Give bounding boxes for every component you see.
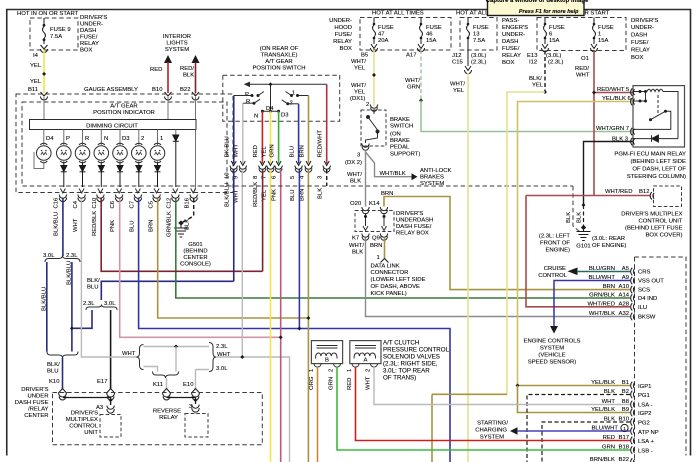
svg-text:YEL: YEL — [30, 79, 42, 85]
gauge assembly box (outer dashed) — [16, 94, 233, 193]
svg-text:SOLENOID VALVES: SOLENOID VALVES — [383, 354, 440, 361]
a/t gear position indicator box (inner dashed) — [22, 102, 227, 186]
svg-text:RELAY BOX: RELAY BOX — [396, 231, 429, 237]
underdash fuse relay box (O20/K14) — [355, 211, 394, 232]
svg-text:BLK/BLU: BLK/BLU — [41, 287, 47, 311]
svg-text:O1: O1 — [581, 56, 589, 62]
svg-text:GRN: GRN — [269, 144, 275, 157]
svg-text:DRIVER'S: DRIVER'S — [21, 387, 48, 393]
svg-text:YEL: YEL — [532, 83, 544, 89]
pin labels C16 C4 C10 C6 C7 C5 C12 B16 (rotated) — [54, 197, 191, 209]
wire RED 1 solenoid A to B17 — [356, 367, 631, 441]
svg-text:A/T GEAR: A/T GEAR — [110, 104, 137, 110]
svg-text:UNDER: UNDER — [28, 394, 49, 400]
svg-text:ENGER'S: ENGER'S — [502, 25, 528, 31]
connector E10 — [192, 389, 200, 400]
svg-text:CONTROL: CONTROL — [69, 424, 99, 430]
diode column 8 — [173, 135, 179, 187]
wire RED/BLK B22 — [195, 62, 197, 93]
wire BLK/BLU 3.0L branch — [46, 262, 48, 352]
svg-text:13: 13 — [473, 32, 480, 38]
svg-text:DASH FUSE/: DASH FUSE/ — [396, 224, 432, 230]
engine controls system dashed box — [635, 257, 687, 462]
ground G501 — [174, 221, 188, 237]
svg-text:VSS OUT: VSS OUT — [638, 279, 664, 285]
svg-text:(2.3L): (2.3L) — [548, 60, 563, 66]
svg-text:SYSTEM: SYSTEM — [420, 181, 444, 187]
svg-text:WHT/RED: WHT/RED — [605, 189, 633, 195]
wire WHT 2.3L upper — [144, 346, 210, 348]
svg-text:DRIVER'S: DRIVER'S — [631, 18, 658, 24]
wire WHT/BLK branch to anti-lock — [366, 152, 412, 177]
svg-text:WHT/: WHT/ — [347, 172, 362, 178]
wire BLK/BLU from C16 — [62, 199, 64, 257]
svg-text:WHT/BLK: WHT/BLK — [589, 311, 615, 317]
connector Q9 — [380, 234, 387, 241]
svg-text:R: R — [246, 99, 250, 105]
fuse 13 7.5A — [467, 18, 470, 67]
svg-text:SYSTEM: SYSTEM — [165, 47, 189, 53]
wire YEL/BLK to relay pin 6 — [518, 102, 634, 386]
lamp N — [94, 143, 109, 163]
svg-text:K11: K11 — [153, 382, 163, 388]
svg-text:PEDAL: PEDAL — [390, 145, 410, 151]
bus K11-E10 — [167, 397, 196, 399]
driver's multiplex control unit box (dashed) — [654, 186, 682, 207]
svg-text:WHT/: WHT/ — [405, 78, 420, 84]
svg-text:A/T CLUTCH: A/T CLUTCH — [383, 340, 419, 347]
svg-text:LIGHTS: LIGHTS — [166, 41, 187, 47]
svg-text:D3: D3 — [122, 136, 130, 142]
svg-text:A32: A32 — [619, 311, 629, 317]
svg-text:E17: E17 — [97, 379, 107, 385]
svg-text:B12: B12 — [639, 189, 649, 195]
svg-text:SYSTEM: SYSTEM — [480, 435, 504, 441]
svg-text:DASH: DASH — [631, 33, 647, 39]
ecm connector brackets — [631, 268, 635, 462]
svg-text:ENGINE): ENGINE) — [545, 248, 570, 254]
svg-text:CONTROL UNIT: CONTROL UNIT — [639, 219, 683, 225]
svg-text:WHT: WHT — [366, 376, 372, 390]
svg-text:(LOWER LEFT SIDE: (LOWER LEFT SIDE — [371, 277, 426, 283]
wire B22 feed inside gauge box — [195, 97, 197, 120]
wire DK BLU pin10 — [233, 96, 235, 164]
svg-text:YEL/BLK: YEL/BLK — [591, 407, 615, 413]
svg-text:A/T GEAR: A/T GEAR — [265, 59, 292, 65]
ground G101 — [577, 226, 591, 241]
svg-text:WHT: WHT — [73, 218, 79, 232]
relay pin 6 internal — [633, 92, 646, 102]
svg-text:(BEHIND: (BEHIND — [183, 249, 207, 255]
svg-text:DASH: DASH — [80, 28, 96, 34]
svg-text:WHT/: WHT/ — [351, 59, 366, 65]
junction dot on 2.3L branch — [70, 326, 74, 330]
svg-text:G101: G101 — [576, 244, 590, 250]
svg-text:SWITCH: SWITCH — [390, 124, 413, 130]
svg-text:GRN: GRN — [329, 377, 335, 390]
svg-text:BRN: BRN — [370, 243, 382, 249]
svg-text:B5: B5 — [361, 53, 369, 59]
svg-text:Press F1 for more help: Press F1 for more help — [519, 9, 579, 15]
svg-text:RELAY: RELAY — [333, 39, 352, 45]
driver's under dash fuse relay center box — [53, 393, 263, 445]
svg-text:DIMMING CIRCUIT: DIMMING CIRCUIT — [86, 124, 138, 130]
svg-text:HOT IN ON OR START: HOT IN ON OR START — [17, 11, 79, 17]
svg-text:BLK/: BLK/ — [87, 278, 100, 284]
wire YEL pin7 below connector — [270, 170, 272, 462]
diode under R — [80, 162, 86, 188]
svg-text:(DX 2): (DX 2) — [345, 160, 362, 166]
svg-text:CRUISE: CRUISE — [544, 266, 566, 272]
svg-text:3.0L: TOP REAR: 3.0L: TOP REAR — [383, 368, 430, 375]
svg-text:(VEHICLE: (VEHICLE — [538, 353, 565, 359]
svg-text:C4: C4 — [73, 200, 79, 208]
svg-text:SCS: SCS — [638, 288, 650, 294]
junction dot WHT upper — [174, 345, 178, 349]
svg-text:WHT/BLK: WHT/BLK — [380, 171, 406, 177]
svg-text:(ON REAR OF: (ON REAR OF — [260, 46, 299, 52]
connector B12 — [650, 192, 654, 199]
fuse 6 15A — [542, 18, 549, 52]
svg-text:C6: C6 — [110, 200, 116, 208]
fuse 46 15A — [418, 18, 425, 52]
svg-text:PRESSURE CONTROL: PRESSURE CONTROL — [383, 347, 450, 354]
svg-text:/RELAY: /RELAY — [28, 407, 49, 413]
arrow up RED/BLK to interior lights — [192, 55, 200, 63]
svg-text:2: 2 — [141, 136, 144, 142]
svg-text:BLK: BLK — [604, 389, 615, 395]
svg-text:(2.3L): (2.3L) — [471, 60, 486, 66]
wire E17 to A3 — [110, 397, 112, 405]
svg-text:IGP2: IGP2 — [638, 411, 651, 417]
svg-text:BRN: BRN — [603, 284, 615, 290]
svg-text:STARTING/: STARTING/ — [477, 421, 508, 427]
svg-text:D4 IND: D4 IND — [638, 296, 657, 302]
svg-text:(3.0L): (3.0L) — [546, 53, 561, 59]
wire WHT pin9 — [242, 103, 244, 163]
svg-text:BLK: BLK — [350, 179, 361, 185]
svg-text:RELAY: RELAY — [631, 48, 650, 54]
svg-text:FRONT OF: FRONT OF — [540, 241, 570, 247]
svg-text:INTERIOR: INTERIOR — [163, 34, 191, 40]
wire BLK dashed to G101 — [583, 205, 585, 227]
svg-text:2: 2 — [329, 369, 335, 372]
wire BLU pin5 below connector — [298, 170, 300, 329]
wire BRN pin4 below connector — [307, 170, 309, 462]
wire BLK B2 dashed — [527, 395, 630, 462]
svg-text:(BEHIND LEFT FUSE: (BEHIND LEFT FUSE — [625, 226, 683, 232]
svg-text:OF ENGINE): OF ENGINE) — [592, 243, 626, 249]
svg-text:3.0L: 3.0L — [104, 301, 116, 307]
svg-text:PG1: PG1 — [638, 393, 650, 399]
svg-text:YEL: YEL — [261, 146, 267, 158]
svg-text:R: R — [85, 136, 89, 142]
svg-text:BRN: BRN — [299, 145, 305, 157]
svg-text:BRN: BRN — [381, 191, 393, 197]
svg-text:P: P — [66, 136, 70, 142]
wire WHT 2 solenoid A to B8 — [374, 367, 630, 405]
svg-text:7.5A: 7.5A — [50, 34, 62, 40]
svg-text:1: 1 — [309, 369, 315, 372]
svg-text:N: N — [104, 136, 108, 142]
solenoid valve B — [311, 341, 342, 368]
svg-text:2.3L: 2.3L — [216, 344, 228, 350]
svg-text:BOX: BOX — [502, 60, 515, 66]
svg-text:BOX: BOX — [340, 46, 353, 52]
wire YEL/BLK B1 — [518, 385, 631, 387]
svg-text:RELAY: RELAY — [80, 41, 99, 47]
wire GRN 2 solenoid B to B18 — [337, 367, 630, 450]
svg-text:BLK/: BLK/ — [529, 76, 542, 82]
svg-text:D3: D3 — [281, 113, 289, 119]
svg-text:LSA +: LSA + — [638, 439, 654, 445]
svg-text:BLU: BLU — [129, 221, 135, 232]
dimming circuit box — [30, 120, 197, 130]
lamp R — [75, 143, 90, 163]
svg-text:HOOD: HOOD — [334, 25, 352, 31]
wire BLK/BLU to K10 — [62, 358, 64, 389]
svg-text:BLU/GRN: BLU/GRN — [589, 266, 615, 272]
wires inside O20/K14 box — [363, 213, 387, 231]
svg-text:A: A — [364, 358, 368, 364]
svg-text:46: 46 — [426, 32, 433, 38]
connector half-circles row (gauge outputs) — [59, 195, 197, 202]
connector O20 — [362, 207, 369, 214]
svg-text:FUSE 9: FUSE 9 — [50, 27, 71, 33]
wire GRN pin6 — [278, 111, 280, 163]
wire BRN link C5 — [158, 199, 309, 319]
svg-text:C7: C7 — [129, 201, 135, 209]
svg-text:RELAY: RELAY — [159, 415, 178, 421]
svg-text:FUSE: FUSE — [473, 25, 489, 31]
wire RED/WHT branch to relay pin 5 — [594, 92, 633, 94]
svg-text:FUSE: FUSE — [598, 25, 614, 31]
connector B11 on gauge box — [41, 92, 48, 100]
svg-text:SPEED SENSOR): SPEED SENSOR) — [528, 360, 576, 366]
svg-text:B2: B2 — [622, 389, 629, 395]
svg-text:BLU/WHT: BLU/WHT — [588, 275, 615, 281]
svg-text:N: N — [254, 114, 258, 120]
wire RED/BLK pin8 below connector — [262, 170, 264, 272]
contact R — [243, 99, 260, 105]
svg-text:15A: 15A — [426, 38, 437, 44]
svg-text:I12: I12 — [529, 60, 537, 66]
svg-text:BLU: BLU — [87, 285, 98, 291]
svg-text:B10: B10 — [152, 87, 163, 93]
svg-text:RED/WHT 5: RED/WHT 5 — [597, 87, 630, 93]
svg-text:RELAY: RELAY — [502, 53, 521, 59]
connector E17 — [107, 389, 115, 400]
svg-text:B9: B9 — [622, 407, 629, 413]
svg-text:CRS: CRS — [638, 270, 651, 276]
relay armature link (dashed) — [657, 95, 659, 116]
contact 2 — [282, 100, 299, 107]
svg-text:FUSE/: FUSE/ — [631, 40, 649, 46]
svg-text:2: 2 — [366, 102, 369, 108]
reverse relay box — [185, 414, 208, 438]
arrow to starting/charging — [510, 427, 518, 434]
wire BLU/WHT A9 to vss arrow — [554, 281, 630, 327]
lamp column stubs from dimming circuit — [44, 130, 176, 146]
connector J12/C15 — [465, 66, 472, 74]
wire BLK dashed down to G101 — [573, 186, 580, 232]
svg-text:DK BLU: DK BLU — [225, 136, 231, 157]
svg-text:BRAKE: BRAKE — [390, 138, 410, 144]
svg-text:BRAKE: BRAKE — [390, 117, 410, 123]
svg-text:B16: B16 — [185, 197, 191, 208]
wire BRN Q9 to data link — [384, 238, 386, 259]
svg-text:BLK: BLK — [183, 73, 194, 79]
wire BLU link C7 to engine controls — [139, 199, 450, 462]
switch connector row — [230, 161, 330, 172]
svg-text:15A: 15A — [549, 38, 560, 44]
svg-text:ILU: ILU — [638, 305, 647, 311]
svg-text:(ON: (ON — [390, 132, 401, 138]
svg-text:D4: D4 — [46, 136, 54, 142]
switch bus — [245, 82, 327, 111]
svg-text:3.0L: 3.0L — [216, 366, 228, 372]
wire BLU/ORN A5 — [577, 271, 630, 273]
svg-text:A5: A5 — [622, 266, 630, 272]
svg-text:FUSE/: FUSE/ — [502, 46, 520, 52]
lamp 1 — [150, 143, 165, 163]
D4 lamp bypass wire — [34, 152, 44, 169]
fuse 47 20A — [371, 18, 378, 52]
svg-text:BLK/: BLK/ — [47, 362, 60, 368]
svg-text:PASS-: PASS- — [502, 18, 519, 24]
wire YEL B11 — [43, 50, 45, 93]
svg-text:BRAKES: BRAKES — [420, 175, 444, 181]
svg-text:PG2: PG2 — [638, 421, 650, 427]
svg-text:BLK: BLK — [604, 417, 615, 423]
svg-text:BRN: BRN — [148, 220, 154, 232]
connector K7 — [362, 234, 369, 241]
svg-text:10: 10 — [225, 172, 231, 179]
wire RED/BLK link C10 to switch pin8 — [101, 199, 262, 272]
svg-text:GRN/BLK: GRN/BLK — [167, 211, 173, 237]
svg-text:(2.3L: RIGHT SIDE,: (2.3L: RIGHT SIDE, — [383, 361, 438, 368]
wire GRN/BLK from C12 to A14 — [176, 199, 630, 299]
svg-text:DRIVER'S: DRIVER'S — [71, 411, 98, 417]
svg-text:A14: A14 — [619, 293, 630, 299]
pgm-fi ecu main relay box — [633, 86, 685, 147]
driver's multiplex control unit box — [100, 415, 121, 438]
svg-text:ORG: ORG — [309, 376, 315, 390]
svg-text:K14: K14 — [369, 201, 380, 207]
svg-text:1: 1 — [377, 255, 380, 261]
svg-text:YEL: YEL — [453, 88, 465, 94]
svg-text:B22: B22 — [619, 457, 629, 462]
wire BLK/BLU pin10 drop — [101, 281, 233, 300]
svg-text:FUSE/: FUSE/ — [335, 32, 353, 38]
connector 1 data link — [381, 259, 389, 263]
svg-text:BLK: BLK — [352, 250, 363, 256]
svg-text:20A: 20A — [378, 38, 389, 44]
svg-text:WHT: WHT — [576, 73, 590, 79]
wire BLK B10 dashed — [542, 422, 630, 462]
svg-text:C12: C12 — [167, 198, 173, 209]
wire PNK link C6 to switch pin6 — [120, 199, 281, 338]
svg-text:OF DASH, LEFT OF: OF DASH, LEFT OF — [632, 167, 686, 173]
svg-text:WHT: WHT — [234, 144, 240, 158]
svg-text:2.3L: 2.3L — [83, 301, 95, 307]
connector B10 — [165, 92, 172, 100]
svg-text:UNDER-: UNDER- — [329, 18, 352, 24]
svg-text:B10: B10 — [619, 417, 630, 423]
wire PNK pin6 below connector — [280, 170, 282, 462]
svg-text:OF DASH, ABOVE: OF DASH, ABOVE — [371, 284, 420, 290]
svg-text:OF TRANS): OF TRANS) — [383, 375, 416, 382]
svg-text:DRIVER'S MULTIPLEX: DRIVER'S MULTIPLEX — [621, 212, 682, 218]
svg-text:PNK: PNK — [110, 220, 116, 232]
driver's under-dash fuse/relay box 3 (dashed) — [537, 18, 626, 51]
svg-text:7.5A: 7.5A — [473, 38, 485, 44]
B22 wire drop inside gauge box — [194, 130, 196, 193]
diode under 1 — [155, 162, 161, 188]
diode under 2 — [136, 162, 142, 188]
wire BLK harness dashed separator — [227, 185, 573, 187]
wire WHT/GRN dashed from A17 — [420, 50, 422, 101]
svg-text:RED: RED — [347, 378, 353, 390]
svg-text:POSITION INDICATOR: POSITION INDICATOR — [93, 110, 155, 116]
svg-text:RED/: RED/ — [575, 66, 589, 72]
svg-text:STEERING COLUMN): STEERING COLUMN) — [627, 174, 686, 180]
wire WHT/RED to B12 and A28 — [526, 196, 650, 307]
connector row arrows through gauge box bottom — [60, 189, 195, 194]
diode under P — [61, 162, 67, 188]
split brace pin10 — [86, 305, 117, 311]
svg-text:FUSE/: FUSE/ — [80, 35, 98, 41]
svg-text:UNDERDASH: UNDERDASH — [396, 218, 433, 224]
svg-text:RED/BLK: RED/BLK — [92, 211, 98, 236]
relay contact — [633, 111, 671, 129]
wire B10 feed inside gauge box — [167, 97, 169, 120]
svg-text:MULTIPLEX: MULTIPLEX — [66, 417, 98, 423]
svg-text:B1: B1 — [622, 380, 629, 386]
fuse 1 15A — [591, 18, 598, 52]
svg-text:C5: C5 — [148, 200, 154, 208]
connector 3 reverse relay — [192, 405, 199, 413]
svg-text:BLK: BLK — [566, 212, 572, 223]
wire WHT/BLK from brake switch — [365, 150, 367, 207]
svg-text:KICK PANEL): KICK PANEL) — [371, 291, 407, 297]
svg-text:WHT/: WHT/ — [349, 243, 364, 249]
svg-text:2: 2 — [366, 369, 372, 372]
fuse 9 7.5A — [43, 18, 46, 44]
svg-text:BLK: BLK — [318, 188, 324, 199]
arrow to cruise control — [568, 268, 578, 276]
svg-text:1: 1 — [623, 426, 626, 431]
svg-text:ATP NP: ATP NP — [638, 430, 659, 436]
svg-text:YEL/BLK: YEL/BLK — [591, 380, 615, 386]
svg-text:47: 47 — [378, 32, 385, 38]
wire BLK 3.0L to E17 — [110, 310, 112, 389]
svg-text:(3.0L: REAR: (3.0L: REAR — [592, 236, 625, 242]
connector 3 brake switch — [362, 144, 369, 151]
svg-text:BOX: BOX — [80, 48, 93, 54]
rotated wire labels above switch connector — [225, 130, 324, 158]
diode under N — [98, 162, 104, 188]
svg-text:DASH: DASH — [502, 39, 518, 45]
wire RED pin8 — [261, 111, 263, 163]
svg-text:CENTER: CENTER — [24, 413, 48, 419]
brace WHT merge — [209, 343, 216, 372]
wire E10 to reverse relay pin 3 — [195, 398, 197, 405]
tooltip popup — [486, 0, 589, 16]
svg-text:ENGINE CONTROLS: ENGINE CONTROLS — [524, 339, 581, 345]
merge brace above K10 — [47, 352, 78, 359]
wire WHT 3.0L lower — [144, 367, 210, 390]
